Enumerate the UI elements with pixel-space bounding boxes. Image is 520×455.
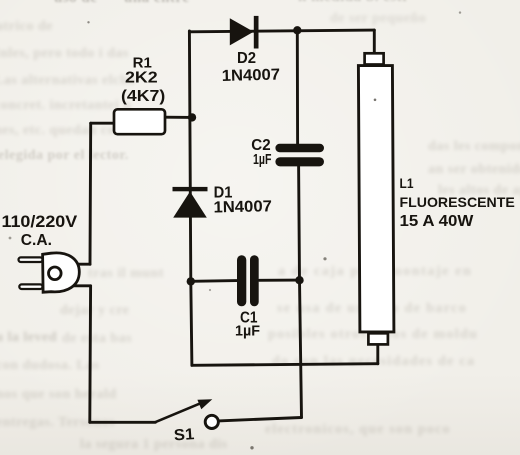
svg-text:1N4007: 1N4007 [213,198,272,216]
lamp L1 bottom cap [368,333,388,344]
wire: C2 lower vertical [297,166,301,281]
wire: R1 right lead [165,116,193,119]
wire: left vertical branch (R1/D1 column) [189,31,190,281]
wire: C1 right lead [259,279,299,282]
svg-text:1µF: 1µF [253,151,271,168]
node: D1 anode / C1 left junction [187,277,195,285]
lamp L1 top cap [365,53,384,64]
resistor R1 body [114,109,165,134]
background show-through text (decorative) [0,0,520,1]
wire: C2 upper vertical [296,30,299,144]
svg-text:1N4007: 1N4007 [222,67,281,85]
capacitor C1 plates [237,255,259,306]
svg-text:1µF: 1µF [235,323,260,340]
wire: C1 left lead [191,279,237,283]
wire: plug bottom stub [70,284,91,287]
wire: plug top stub [78,263,91,266]
wire: D1/C1-left node down to bottom rail [191,281,192,365]
diode D2 (1N4007) body [230,16,259,49]
node: top junction (D2 cathode / C2 / lamp) [293,26,301,34]
plug body (110/220V C.A. mains) [43,253,80,292]
svg-text:(4K7): (4K7) [121,88,165,105]
plug hole [49,267,62,280]
plug top prong [19,257,43,262]
wire: switch right vertical [300,280,302,417]
plug bottom prong [19,284,42,289]
wire: plug bottom vertical to switch [88,286,92,423]
diode D1 (1N4007) body [173,187,208,218]
wire: R1 left lead [91,122,115,125]
wire: switch right horizontal [218,418,301,421]
wire: lamp bottom lead [376,345,379,364]
node: R1 right / left column junction [188,113,196,121]
svg-text:D2: D2 [237,50,256,67]
svg-text:2K2: 2K2 [125,70,158,87]
wire: top horizontal rail [189,30,374,32]
wire: lamp top drop [373,30,376,52]
svg-text:15 A 40W: 15 A 40W [400,213,474,230]
wire: bottom rail to lamp bottom [192,364,378,366]
switch S1 contact circle [205,415,218,428]
svg-text:C.A.: C.A. [21,232,52,249]
switch S1 arrowhead [197,399,212,409]
svg-text:S1: S1 [173,426,195,444]
svg-text:110/220V: 110/220V [2,213,78,231]
switch S1 lever [155,402,204,422]
svg-text:L1: L1 [400,176,414,191]
lamp L1 tube [358,66,394,332]
node: C1 right / C2 bottom / switch junction [295,276,303,284]
capacitor C2 plates [275,144,324,167]
wire: plug top feed vertical [89,123,93,264]
svg-text:FLUORESCENTE: FLUORESCENTE [400,194,515,210]
wire: switch left horizontal [90,421,156,424]
